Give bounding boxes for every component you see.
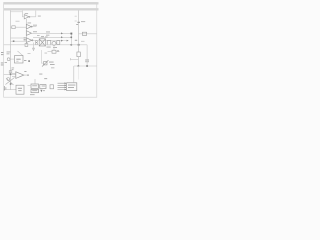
wire U1A in/out xyxy=(22,11,36,17)
label right of tick xyxy=(81,20,85,23)
wire mid y37.3 xyxy=(33,36,71,38)
label U1C xyxy=(33,31,50,32)
wire U1D input 1 xyxy=(11,37,27,39)
component box X2 xyxy=(52,50,56,53)
module box M1 xyxy=(16,85,24,94)
component box right of K1 xyxy=(47,41,51,45)
gate U1A xyxy=(24,15,30,19)
wire X2 leads xyxy=(48,51,60,53)
resistor R3 on right vertical xyxy=(77,52,80,57)
gate U1B xyxy=(26,24,32,29)
tick at stub end xyxy=(69,58,71,60)
connector pin arrows xyxy=(65,82,67,90)
junction x78.5 y66 xyxy=(78,65,80,67)
junction on input wire xyxy=(13,40,15,42)
wire R1 leads xyxy=(11,26,27,28)
wire long y44.8 xyxy=(4,44,88,46)
wire crossing pair xyxy=(6,78,15,86)
wire vertical x54 link xyxy=(53,45,55,50)
node B dot and label xyxy=(24,60,30,72)
faint pin labels x75 xyxy=(75,16,77,22)
junction at x71.3 xyxy=(71,44,73,46)
transducer circle B1 xyxy=(52,41,56,45)
wire to RV1 xyxy=(41,50,43,63)
component box X3 xyxy=(50,85,54,89)
label near wire end xyxy=(75,39,77,42)
IC U2 box xyxy=(15,56,24,63)
resistor R2 xyxy=(82,32,86,35)
battery BT1 xyxy=(4,86,6,91)
tick on right vertical xyxy=(77,22,80,23)
pin ticks left border xyxy=(1,52,4,65)
labels in IC blocks xyxy=(32,78,47,91)
wire faint continuation xyxy=(77,66,79,80)
op-amp U3 xyxy=(16,72,24,79)
faint label under cluster xyxy=(45,52,48,55)
gate U1D xyxy=(26,38,33,43)
label above y44.8 right xyxy=(81,40,85,43)
wire bottom-left y89.7 xyxy=(4,89,16,91)
wire gate bus vertical xyxy=(25,19,27,44)
connector pin wires xyxy=(58,83,65,89)
junction at x78.5 xyxy=(78,44,80,46)
wire y74.3 xyxy=(4,73,16,75)
gate U1C xyxy=(26,31,31,36)
wire left vertical bus xyxy=(10,11,12,90)
pin labels U1D xyxy=(24,37,26,40)
wire U1B output xyxy=(32,26,36,28)
ground xyxy=(32,48,35,51)
wire above C2 xyxy=(86,45,88,60)
wire U1D output xyxy=(33,40,69,42)
RV1 wiper arrow xyxy=(42,60,48,66)
power rail GND (top bus 2) xyxy=(4,8,99,10)
labels above y37.3 wire xyxy=(37,35,48,37)
small text labels left area xyxy=(5,52,15,71)
label net right of U1A xyxy=(38,15,41,18)
label left of vertical xyxy=(76,23,78,26)
ground arrow down xyxy=(40,90,42,92)
power rail VCC (top bus 1) xyxy=(4,2,99,4)
junction node y33.4 xyxy=(70,33,72,35)
label net A xyxy=(16,20,20,23)
wire coil drop xyxy=(33,43,35,49)
wire into U2 xyxy=(11,58,15,60)
arrowhead wire end xyxy=(67,40,69,42)
labels RV1 xyxy=(39,62,54,75)
wire stub into U4 xyxy=(28,85,32,87)
component box on bus xyxy=(9,71,12,73)
faint label mid-right xyxy=(51,66,54,69)
component box right of B1 xyxy=(57,41,60,45)
wire vertical x71.3 xyxy=(70,33,72,44)
wire below C2 xyxy=(86,62,88,66)
wire below R3 xyxy=(78,57,80,66)
label U1A xyxy=(25,12,28,15)
IC block U6 xyxy=(31,89,39,92)
IC block U4 xyxy=(31,84,39,88)
wire stub y59.3 xyxy=(71,58,79,60)
junction C2 net xyxy=(86,65,88,67)
wire U1D input 2 xyxy=(11,40,27,42)
label J1 text xyxy=(68,85,75,88)
wire down to J1 xyxy=(73,66,75,83)
label U2 text xyxy=(16,53,30,61)
lamp circle DS1 xyxy=(7,58,10,61)
wire right vertical x78.5 xyxy=(78,11,80,53)
terminal circle K1 pin 2 xyxy=(35,43,37,45)
node at U3 output xyxy=(27,75,28,76)
potentiometer RV1 xyxy=(44,62,48,65)
wire top-left stub xyxy=(11,11,23,13)
labels near ground xyxy=(30,90,45,95)
wire y66 xyxy=(74,65,97,67)
arrowhead on y37.3 wire xyxy=(61,36,63,38)
label X2 xyxy=(57,49,59,52)
wire diagonal annotation xyxy=(18,51,24,56)
wire y33.8 to border xyxy=(79,33,97,35)
capacitor C1 on gate bus xyxy=(25,44,28,47)
terminal circle K1 pin 1 xyxy=(35,40,37,42)
connector J1 box xyxy=(67,83,77,91)
capacitor C2 xyxy=(85,60,89,62)
resistor R1 xyxy=(12,26,15,29)
junction node y37.3 xyxy=(71,37,73,39)
wire U1C output long xyxy=(32,32,72,34)
value labels under cluster xyxy=(46,35,57,48)
junction on bus xyxy=(10,83,12,85)
IC block U5 xyxy=(40,85,46,89)
relay K1 coil box xyxy=(39,39,45,46)
junction on bus y74 xyxy=(10,74,12,76)
arrowhead mid wire xyxy=(61,40,63,42)
wire into IC block xyxy=(34,79,36,84)
arrowhead on U1C wire xyxy=(61,32,63,34)
border frame xyxy=(4,3,97,98)
label U1B xyxy=(28,23,38,26)
label M1 text xyxy=(18,88,22,91)
terminal circle left xyxy=(7,78,10,81)
wire U3 inputs and output xyxy=(12,73,28,76)
